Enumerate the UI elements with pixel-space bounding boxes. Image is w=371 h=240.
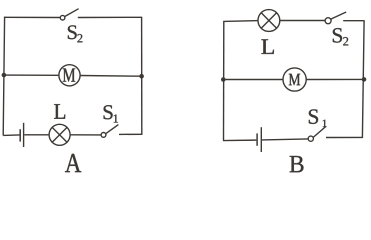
wire battery to lamp circuit A	[24, 134, 49, 136]
wire after switch circuit B	[326, 136, 363, 138]
wire left edge circuit A	[3, 17, 4, 136]
motor U-M (circuit A)	[59, 65, 80, 86]
motor U-M (circuit B)	[283, 68, 306, 91]
battery BT1 (circuit B)	[257, 127, 261, 152]
wire bottom left segment circuit A	[3, 134, 19, 137]
wire after switch circuit A	[119, 133, 142, 135]
label S2 (circuit A)	[68, 25, 82, 42]
wire middle left segment circuit A	[4, 74, 59, 76]
label S1 (circuit B)	[309, 109, 327, 126]
switch S2 (circuit A)	[60, 9, 78, 20]
wire right edge circuit B	[362, 21, 364, 138]
label B (figure B)	[290, 156, 304, 172]
node right junction circuit B	[362, 77, 367, 82]
wire middle right segment circuit A	[80, 75, 142, 78]
battery BT1 (circuit A)	[20, 123, 23, 147]
label L (circuit A)	[54, 104, 65, 119]
wire battery to switch circuit B	[262, 139, 308, 140]
node left junction circuit A	[2, 73, 7, 78]
node right junction circuit A	[139, 74, 144, 79]
wire lamp to switch circuit B	[280, 20, 325, 22]
wire right edge circuit A	[141, 17, 143, 135]
wire left edge circuit B	[223, 21, 225, 140]
wire middle right segment circuit B	[306, 78, 364, 80]
lamp L (circuit A)	[49, 124, 70, 145]
label L (circuit B)	[261, 39, 273, 54]
wire middle left segment circuit B	[223, 79, 283, 81]
switch S2 (circuit B)	[325, 12, 346, 24]
label S1 (circuit A)	[104, 105, 118, 122]
wire top left segment circuit B	[223, 20, 258, 23]
node left junction circuit B	[221, 77, 226, 82]
label A (figure A)	[65, 154, 81, 172]
lamp L (circuit B)	[258, 10, 280, 32]
wire bottom left segment circuit B	[223, 139, 256, 142]
label S2 (circuit B)	[333, 28, 348, 45]
switch S1 (circuit B)	[308, 126, 326, 141]
wire lamp to switch circuit A	[70, 134, 101, 136]
wire after switch circuit B	[343, 20, 364, 22]
wire top right segment circuit A	[78, 16, 142, 18]
wire top left segment circuit A	[4, 16, 60, 18]
switch S1 (circuit A)	[101, 125, 118, 138]
